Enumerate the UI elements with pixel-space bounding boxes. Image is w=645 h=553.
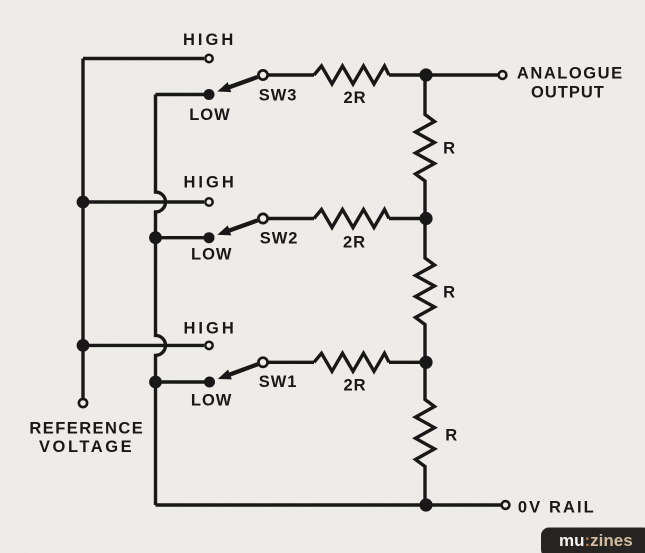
wire 0V rail [156, 503, 502, 506]
wire SW1 HIGH branch [83, 344, 204, 347]
terminal SW2 HIGH contact [205, 198, 212, 205]
junction dot node B [419, 212, 432, 225]
junction dot SW2 LOW contact [204, 232, 215, 243]
terminal REFERENCE VOLTAGE [79, 399, 87, 407]
junction dot SW1 LOW contact [204, 377, 215, 388]
junction dot line2 / SW2 LOW [149, 231, 162, 244]
svg-text:HIGH: HIGH [184, 319, 237, 337]
label SW3 [259, 86, 298, 104]
svg-text:SW2: SW2 [260, 229, 299, 247]
wire SW2 pole to resistor [268, 217, 314, 220]
junction dot node C [419, 356, 432, 369]
label 2R (SW1 row) [344, 377, 367, 395]
resistor 2R (SW3 row) [314, 66, 389, 84]
svg-text:LOW: LOW [191, 392, 233, 410]
terminal SW3 HIGH contact [205, 55, 212, 62]
resistor R (top, node A to node B) [416, 75, 435, 219]
label R (middle resistor) [443, 283, 455, 301]
svg-text:HIGH: HIGH [183, 31, 236, 49]
label 2R (SW2 row) [343, 233, 366, 251]
wire SW3 HIGH branch [83, 57, 204, 60]
junction dot SW3 LOW contact [204, 89, 215, 100]
label R (bottom resistor) [445, 427, 457, 445]
svg-text:HIGH: HIGH [184, 174, 237, 192]
label R (top resistor) [443, 139, 455, 157]
wire SW1 pole to resistor [268, 361, 314, 364]
arrowhead SW1 [218, 370, 232, 380]
svg-text:SW3: SW3 [259, 86, 298, 104]
wire SW2 HIGH branch [83, 200, 204, 203]
label ANALOGUE OUTPUT [517, 64, 624, 101]
resistor 2R (SW1 row) [314, 353, 389, 371]
label SW2 [260, 229, 299, 247]
terminal SW1 HIGH contact [205, 342, 212, 349]
wire 2R to node C [389, 361, 426, 364]
svg-text:LOW: LOW [191, 245, 233, 263]
svg-text:2R: 2R [344, 377, 367, 395]
junction dot node A (output node) [419, 68, 432, 81]
label LOW (SW2) [191, 245, 233, 263]
label LOW (SW3) [189, 106, 231, 124]
terminal 0V RAIL [502, 501, 510, 509]
svg-text:2R: 2R [344, 89, 367, 107]
label SW1 [259, 373, 298, 391]
svg-text:2R: 2R [343, 233, 366, 251]
resistor 2R (SW2 row) [314, 210, 389, 228]
label HIGH (SW1) [184, 319, 237, 337]
terminal SW1 pole [258, 358, 267, 367]
muzines logo [541, 528, 645, 553]
switch arm SW1 [227, 364, 258, 375]
svg-text:LOW: LOW [189, 106, 231, 124]
wire SW1 LOW branch [156, 380, 210, 383]
switch arm SW3 [226, 77, 257, 88]
wire 2R to node B [389, 217, 426, 220]
label HIGH (SW3) [183, 31, 236, 49]
label 0V RAIL [518, 498, 596, 516]
svg-text:REFERENCE: REFERENCE [29, 419, 144, 437]
svg-text:0V RAIL: 0V RAIL [518, 498, 596, 516]
svg-text:R: R [443, 283, 455, 301]
wire SW3 pole to resistor [268, 73, 314, 76]
junction dot line2 / SW1 LOW [149, 376, 162, 389]
svg-text:SW1: SW1 [259, 373, 298, 391]
svg-text:VOLTAGE: VOLTAGE [39, 438, 134, 456]
resistor R (middle, node B to node C) [416, 219, 435, 363]
svg-text:ANALOGUE: ANALOGUE [517, 64, 624, 82]
terminal SW3 pole [258, 70, 267, 79]
label LOW (SW1) [191, 392, 233, 410]
arrowhead SW3 [217, 82, 231, 92]
switch arm SW2 [226, 220, 257, 231]
wire output node to terminal [426, 73, 498, 76]
junction dot line1 / SW2 HIGH [77, 196, 90, 209]
label 2R (SW3 row) [344, 89, 367, 107]
svg-text:OUTPUT: OUTPUT [531, 83, 605, 101]
junction dot node 0V [419, 498, 432, 511]
wire 2R to output node A [389, 73, 426, 76]
label REFERENCE VOLTAGE [29, 419, 144, 456]
svg-text:R: R [445, 427, 457, 445]
terminal SW2 pole [258, 214, 267, 223]
wire SW2 LOW branch [156, 236, 210, 239]
svg-text:R: R [443, 139, 455, 157]
arrowhead SW2 [217, 225, 231, 235]
svg-text:mu:zines: mu:zines [559, 531, 633, 550]
terminal ANALOGUE OUTPUT [499, 71, 507, 79]
wire 0V bus (line 2, LOW bus) with hops over HIGH branches [156, 95, 166, 506]
resistor R (bottom, node C to 0V rail) [416, 362, 435, 505]
label HIGH (SW2) [184, 174, 237, 192]
wire reference bus (line 1, HIGH bus) [81, 59, 84, 399]
junction dot line1 / SW1 HIGH [77, 339, 90, 352]
wire SW3 LOW branch [156, 93, 210, 96]
